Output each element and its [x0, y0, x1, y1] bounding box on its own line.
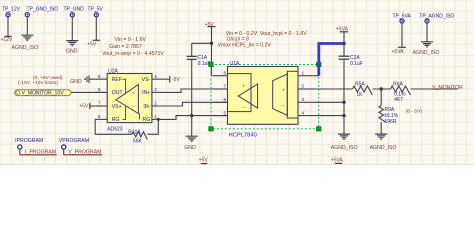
svg-text:8: 8 [98, 114, 101, 119]
svg-text:GND: GND [70, 79, 82, 85]
svg-text:3: 3 [154, 87, 157, 92]
svg-text:R9A: R9A [385, 107, 395, 113]
svg-text:Vin = 0 - 1.6V: Vin = 0 - 1.6V [115, 37, 147, 43]
svg-text:AD623: AD623 [107, 126, 123, 132]
svg-text:AGND_ISO: AGND_ISO [413, 50, 440, 56]
svg-text:2: 2 [302, 84, 305, 89]
svg-text:6: 6 [98, 87, 101, 92]
svg-text:OUT: OUT [112, 90, 124, 96]
svg-text:+: + [132, 91, 135, 96]
svg-text:−: − [132, 105, 135, 110]
svg-text:+5V: +5V [87, 42, 97, 48]
svg-text:RG: RG [112, 117, 120, 123]
svg-text:TP_5V: TP_5V [88, 7, 104, 13]
svg-text:VS+: VS+ [112, 104, 122, 110]
svg-text:3: 3 [302, 97, 305, 102]
svg-text:+: + [242, 84, 245, 89]
svg-text:4: 4 [302, 110, 305, 115]
svg-text:+5V: +5V [205, 22, 215, 28]
svg-text:R10A: R10A [128, 129, 141, 135]
svg-text:TP_GND: TP_GND [64, 7, 85, 13]
svg-text:+5VA: +5VA [331, 157, 344, 163]
svg-text:HCPL7840: HCPL7840 [229, 133, 257, 139]
svg-text:IN+: IN+ [142, 90, 150, 96]
svg-text:AGND_ISO: AGND_ISO [331, 145, 358, 151]
svg-text:VPROGRAM: VPROGRAM [59, 138, 89, 144]
svg-text:U2A: U2A [108, 68, 118, 74]
svg-text:Vout_in-amp = 0 - 4.4571V: Vout_in-amp = 0 - 4.4571V [102, 51, 164, 57]
svg-text:REF: REF [112, 77, 122, 83]
svg-text:1: 1 [154, 114, 157, 119]
svg-text:+5VA: +5VA [392, 49, 405, 55]
svg-text:AGND_ISO: AGND_ISO [12, 45, 39, 51]
svg-text:R5A: R5A [355, 82, 365, 88]
svg-text:5: 5 [98, 74, 101, 79]
svg-text:V_PROGRAM: V_PROGRAM [68, 150, 101, 156]
svg-text:+5V: +5V [199, 158, 209, 164]
svg-text:-5V: -5V [172, 77, 180, 83]
svg-text:V_MONITOR_10V: V_MONITOR_10V [22, 91, 65, 97]
svg-text:7: 7 [223, 84, 226, 89]
svg-text:Gain = 2.7857: Gain = 2.7857 [109, 44, 142, 50]
svg-text:VS-: VS- [142, 77, 151, 83]
svg-text:(-10V, +10V limits): (-10V, +10V limits) [18, 80, 58, 86]
svg-text:2: 2 [154, 101, 157, 106]
svg-text:4K7: 4K7 [394, 97, 403, 103]
svg-text:IN-: IN- [143, 104, 150, 110]
svg-text:0.1uF: 0.1uF [350, 61, 363, 67]
svg-text:AGND_ISO: AGND_ISO [370, 145, 397, 151]
svg-text:TP_AGND_ISO: TP_AGND_ISO [419, 14, 454, 20]
svg-text:Ghcpl = 8: Ghcpl = 8 [227, 37, 249, 43]
svg-text:+: + [282, 88, 285, 93]
svg-text:196R: 196R [385, 119, 397, 125]
svg-text:8: 8 [223, 70, 226, 75]
svg-text:+5V: +5V [79, 103, 89, 109]
svg-text:Vmax HCPL_lin = 0.2V: Vmax HCPL_lin = 0.2V [218, 43, 272, 49]
svg-text:R6A: R6A [393, 82, 403, 88]
svg-text:5: 5 [223, 110, 226, 115]
svg-text:1: 1 [302, 70, 305, 75]
svg-text:I_PROGRAM: I_PROGRAM [25, 150, 56, 156]
svg-text:4: 4 [154, 74, 157, 79]
svg-text:TP_12V: TP_12V [2, 6, 21, 12]
svg-text:(0 - 5V): (0 - 5V) [406, 109, 423, 115]
svg-text:−: − [242, 106, 245, 111]
svg-text:56K: 56K [133, 139, 143, 145]
svg-text:7: 7 [98, 101, 101, 106]
svg-text:6: 6 [223, 97, 226, 102]
svg-text:C2A: C2A [350, 55, 360, 61]
svg-text:U1A: U1A [230, 61, 240, 67]
svg-text:GND: GND [66, 49, 78, 55]
svg-text:IPROGRAM: IPROGRAM [15, 138, 43, 144]
svg-text:V_MONITOR: V_MONITOR [432, 85, 463, 91]
svg-text:−: − [281, 105, 284, 110]
svg-text:TP_GND_ISO: TP_GND_ISO [27, 6, 59, 12]
svg-text:RG: RG [143, 117, 151, 123]
svg-text:GND: GND [184, 145, 196, 151]
svg-text:1K: 1K [356, 92, 363, 98]
svg-text:+12V: +12V [1, 37, 13, 43]
